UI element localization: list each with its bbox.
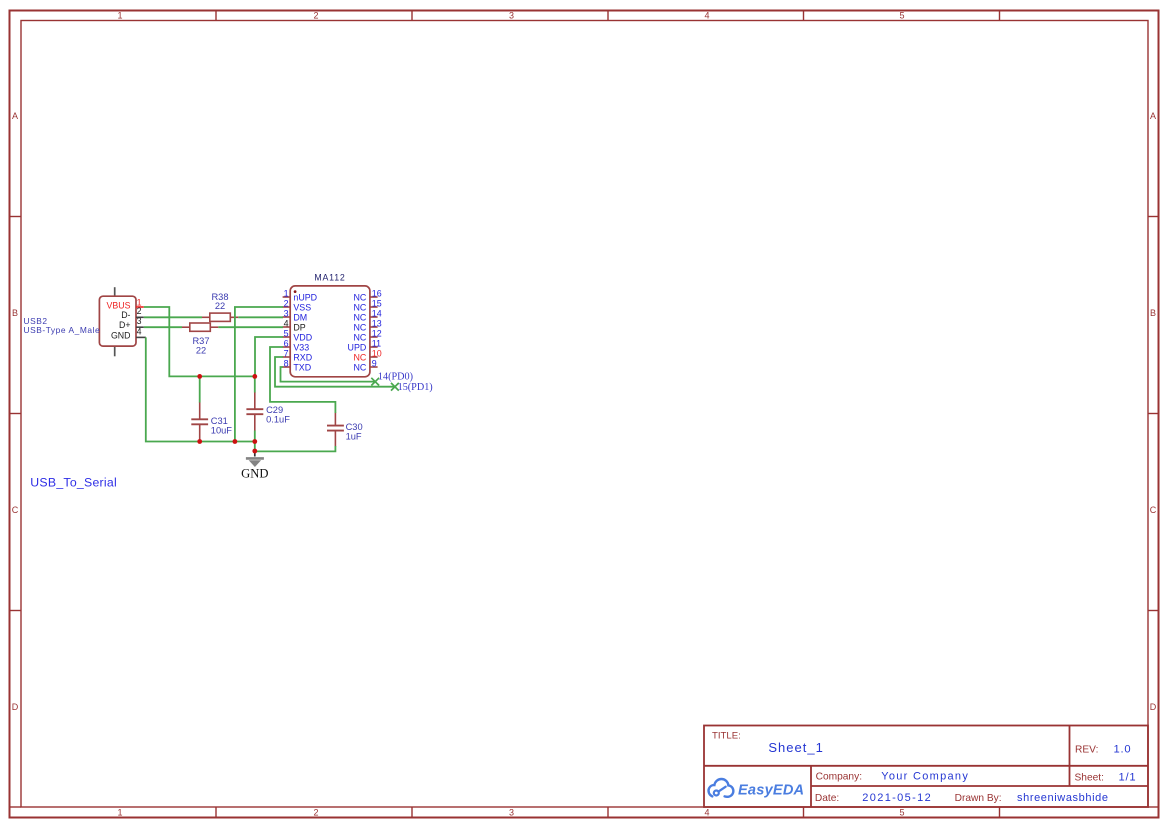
svg-text:1.0: 1.0 [1114, 744, 1132, 756]
svg-text:Your Company: Your Company [881, 770, 969, 782]
svg-text:C: C [1150, 505, 1157, 515]
svg-text:NC: NC [353, 322, 366, 332]
svg-text:1: 1 [117, 11, 122, 21]
wire D+ right: R37 to IC pin4 DP [218, 326, 283, 328]
net flag 15(PD1) [391, 382, 433, 393]
wire C31 top connection [199, 376, 201, 402]
svg-text:2: 2 [313, 808, 318, 818]
resistor R38 22 [202, 292, 238, 322]
capacitor C30 1uF [327, 413, 363, 447]
MA112 pin 13 (NC) [353, 318, 381, 332]
connector USB2 USB-Type A_Male [99, 287, 136, 356]
svg-text:4: 4 [137, 326, 142, 336]
MA112 pin 9 (NC) [353, 358, 377, 372]
svg-text:Sheet_1: Sheet_1 [768, 740, 823, 755]
wire TXD: IC pin8 to net flag 14(PD0) [281, 367, 376, 382]
svg-text:D: D [1150, 702, 1157, 712]
wire C29 top connection [254, 376, 256, 392]
svg-text:TITLE:: TITLE: [712, 731, 741, 742]
wire C29 bottom connection [254, 431, 256, 442]
svg-text:GND: GND [111, 330, 131, 340]
junction [252, 374, 257, 379]
svg-text:15: 15 [372, 298, 382, 308]
svg-text:NC: NC [353, 302, 366, 312]
svg-text:nUPD: nUPD [293, 292, 317, 302]
MA112 pin 10 (NC) [353, 348, 381, 362]
svg-text:Company:: Company: [816, 771, 862, 782]
EasyEDA logo [709, 779, 805, 799]
svg-text:3: 3 [509, 808, 514, 818]
svg-text:A: A [1150, 111, 1156, 121]
MA112 pin 7 (RXD) [283, 348, 313, 362]
svg-text:DM: DM [293, 312, 307, 322]
svg-text:14: 14 [372, 308, 382, 318]
svg-text:Date:: Date: [815, 793, 839, 804]
svg-text:REV:: REV: [1075, 745, 1098, 756]
svg-text:RXD: RXD [293, 352, 312, 362]
svg-text:1uF: 1uF [346, 431, 362, 441]
USB2 reference labels [24, 316, 101, 335]
svg-text:DP: DP [293, 322, 305, 332]
wire VBUS: USB pin1 to top rail [144, 307, 255, 376]
MA112 pin 6 (V33) [283, 338, 310, 352]
svg-text:VSS: VSS [293, 302, 311, 312]
MA112 pin 1 (nUPD) [283, 288, 317, 302]
svg-text:5: 5 [899, 11, 904, 21]
svg-text:VDD: VDD [293, 332, 312, 342]
svg-text:NC: NC [353, 332, 366, 342]
wire V33: IC pin6 to C30 top [270, 347, 335, 413]
ground symbol GND [241, 451, 268, 480]
svg-text:4: 4 [704, 11, 709, 21]
MA112 pin 8 (TXD) [283, 358, 312, 372]
junction [197, 374, 202, 379]
net flag 14(PD0) [371, 372, 413, 386]
svg-text:3: 3 [284, 308, 289, 318]
MA112 pin 11 (UPD) [348, 338, 382, 352]
svg-text:3: 3 [509, 11, 514, 21]
svg-text:4: 4 [284, 318, 289, 328]
svg-text:B: B [1150, 308, 1156, 318]
wire D- right: R38 to IC pin3 DM [238, 316, 283, 318]
svg-text:2021-05-12: 2021-05-12 [862, 792, 932, 804]
IC MA112 body [290, 273, 370, 377]
svg-text:13: 13 [372, 318, 382, 328]
svg-text:A: A [12, 111, 18, 121]
svg-text:NC: NC [353, 362, 366, 372]
wire VDD: IC pin5 to top rail [255, 337, 283, 376]
svg-text:7: 7 [284, 348, 289, 358]
svg-text:USB_To_Serial: USB_To_Serial [30, 476, 117, 490]
svg-text:B: B [12, 308, 18, 318]
svg-text:UPD: UPD [348, 342, 367, 352]
svg-text:16: 16 [372, 288, 382, 298]
svg-text:4: 4 [704, 808, 709, 818]
svg-text:15(PD1): 15(PD1) [398, 382, 433, 393]
MA112 pin 5 (VDD) [283, 328, 313, 342]
wire RXD: IC pin7 to net flag 15(PD1) [275, 357, 395, 387]
svg-text:6: 6 [284, 338, 289, 348]
MA112 pin 3 (DM) [283, 308, 308, 322]
svg-text:C30: C30 [346, 422, 363, 432]
svg-text:USB-Type A_Male: USB-Type A_Male [24, 325, 101, 335]
svg-text:0.1uF: 0.1uF [266, 415, 290, 425]
wire D-: USB pin2 to R38 left [144, 316, 202, 318]
wire GND from USB pin4 down to bottom rail [146, 337, 255, 441]
junction [252, 449, 257, 454]
svg-text:12: 12 [372, 328, 382, 338]
MA112 pin 4 (DP) [283, 318, 306, 332]
svg-text:10uF: 10uF [211, 426, 233, 436]
svg-text:NC: NC [353, 292, 366, 302]
svg-text:1/1: 1/1 [1119, 771, 1137, 783]
MA112 pin 2 (VSS) [283, 298, 312, 312]
junction [197, 439, 202, 444]
svg-text:22: 22 [196, 345, 206, 355]
svg-text:NC: NC [353, 312, 366, 322]
capacitor C31 10uF [191, 402, 232, 441]
svg-text:C29: C29 [266, 405, 283, 415]
MA112 pin 16 (NC) [353, 288, 381, 302]
svg-text:EasyEDA: EasyEDA [738, 783, 804, 799]
svg-text:3: 3 [137, 316, 142, 326]
svg-text:9: 9 [372, 358, 377, 368]
title block [704, 726, 1148, 808]
svg-text:TXD: TXD [293, 362, 311, 372]
svg-text:10: 10 [372, 348, 382, 358]
svg-text:MA112: MA112 [314, 273, 345, 283]
title block texts [712, 731, 1136, 804]
svg-text:5: 5 [899, 808, 904, 818]
capacitor C29 0.1uF [246, 392, 290, 431]
svg-text:2: 2 [313, 11, 318, 21]
svg-text:C31: C31 [211, 416, 228, 426]
USB2 pin 3 stub [136, 326, 144, 328]
junction [233, 439, 238, 444]
MA112 pin 12 (NC) [353, 328, 381, 342]
svg-text:11: 11 [372, 338, 381, 348]
USB2 pin numbers [137, 297, 142, 336]
MA112 pin 15 (NC) [353, 298, 381, 312]
svg-text:C: C [12, 505, 19, 515]
svg-text:D+: D+ [119, 320, 131, 330]
junction [252, 439, 257, 444]
svg-text:GND: GND [241, 466, 268, 480]
USB2 pin 2 stub [136, 316, 144, 318]
svg-text:shreeniwasbhide: shreeniwasbhide [1017, 792, 1109, 804]
svg-text:5: 5 [284, 328, 289, 338]
svg-text:8: 8 [284, 358, 289, 368]
MA112 pin 14 (NC) [353, 308, 381, 322]
USB2 pin 4 stub [136, 336, 146, 338]
resistor R37 22 [182, 323, 218, 355]
wire VSS: IC pin2 down to bottom rail [235, 307, 283, 442]
svg-text:VBUS: VBUS [107, 301, 131, 311]
svg-text:Drawn By:: Drawn By: [955, 793, 1002, 804]
svg-text:1: 1 [117, 808, 122, 818]
wire D+: USB pin3 to R37 left [144, 326, 182, 328]
svg-text:R37: R37 [192, 336, 209, 346]
USB2 pin 1 stub (VBUS) [136, 306, 144, 308]
svg-text:D: D [12, 702, 19, 712]
svg-text:V33: V33 [293, 342, 309, 352]
svg-text:22: 22 [215, 301, 225, 311]
wire GND node to C30 bottom [255, 442, 336, 452]
svg-text:D-: D- [121, 310, 130, 320]
svg-text:1: 1 [284, 288, 289, 298]
svg-text:2: 2 [137, 306, 142, 316]
svg-text:Sheet:: Sheet: [1075, 772, 1104, 783]
svg-text:NC: NC [353, 352, 366, 362]
svg-text:2: 2 [284, 298, 289, 308]
